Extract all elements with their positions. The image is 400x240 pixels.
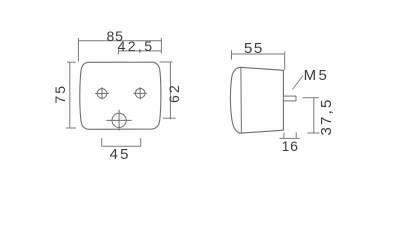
svg-text:M5: M5 — [304, 67, 330, 84]
svg-text:16: 16 — [282, 138, 299, 154]
svg-text:37,5: 37,5 — [318, 98, 335, 136]
svg-text:42,5: 42,5 — [118, 38, 155, 54]
dimension 85 line with extension ticks — [78, 38, 161, 62]
svg-text:75: 75 — [52, 84, 68, 104]
lamp body front view outline — [80, 62, 161, 129]
dimension 55 line with tick and extension — [232, 50, 285, 69]
bottom cable hole with crosshair — [106, 110, 131, 131]
screw hole right with crosshair — [133, 87, 147, 99]
dimension 62 line with ticks and extensions — [160, 62, 176, 119]
lamp body side view outline — [230, 67, 283, 133]
dimension 42,5 line with tick — [119, 47, 162, 55]
svg-text:45: 45 — [110, 146, 131, 163]
dimension 75 line with ticks — [66, 62, 76, 128]
screw hole left with crosshair — [95, 87, 109, 99]
M5 mounting stud — [284, 96, 297, 101]
dimension 16 line with ticks — [280, 132, 300, 138]
svg-text:62: 62 — [166, 83, 182, 103]
dimension 45 line with ticks — [102, 138, 141, 146]
M5 leader line — [293, 76, 304, 90]
lens seam line side view — [240, 67, 243, 133]
dimension 37,5 line with ticks and extensions — [303, 98, 320, 133]
svg-text:55: 55 — [244, 40, 264, 57]
